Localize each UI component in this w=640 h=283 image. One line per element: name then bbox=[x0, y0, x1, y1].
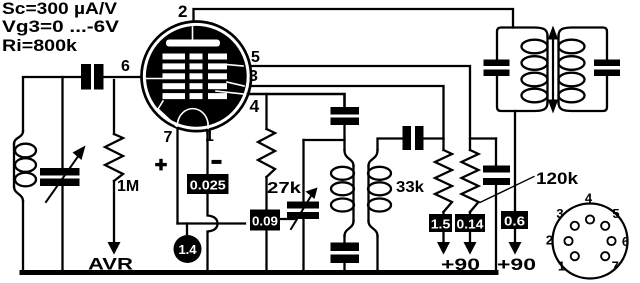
wire T2 secondary top bbox=[378, 139, 403, 151]
arrow +90 right bbox=[514, 229, 516, 242]
transformer T2 primary bbox=[345, 150, 354, 236]
capacitor C2 grid coupling bbox=[81, 64, 91, 90]
tube socket base diagram bbox=[553, 204, 628, 279]
wire T2 secondary bottom bbox=[376, 236, 378, 272]
svg-text:0.025: 0.025 bbox=[190, 178, 226, 193]
svg-text:4: 4 bbox=[250, 96, 260, 116]
resistor R1 1M bbox=[113, 80, 115, 134]
transformer T3 primary winding bbox=[546, 36, 548, 103]
wire grid cap to tube bbox=[104, 76, 142, 78]
svg-text:120k: 120k bbox=[536, 170, 579, 188]
transformer T2 secondary bbox=[369, 150, 378, 236]
arrow variable cap C1 bbox=[46, 155, 79, 202]
wire left antenna vertical bbox=[22, 78, 24, 272]
capacitor C8 33k coupling bbox=[403, 126, 412, 150]
svg-text:1: 1 bbox=[558, 259, 565, 274]
wire pin 4 to 27k bbox=[265, 94, 267, 129]
svg-text:+90: +90 bbox=[441, 256, 480, 274]
inductor L1 antenna coil bbox=[14, 131, 23, 201]
svg-text:0.09: 0.09 bbox=[252, 215, 278, 229]
wire 0.09 to trimmer bbox=[280, 218, 296, 220]
capacitor C11 T3 secondary bbox=[594, 60, 620, 67]
battery 1.4 circle bbox=[174, 235, 202, 263]
svg-text:1.5: 1.5 bbox=[431, 217, 451, 232]
capacitor C10 T3 primary bbox=[484, 60, 510, 67]
tube grid dashes bbox=[163, 54, 228, 100]
svg-text:4: 4 bbox=[585, 191, 593, 206]
wire pin 2 to output transformer bbox=[194, 9, 514, 28]
svg-text:0.6: 0.6 bbox=[504, 214, 525, 229]
tube V1 envelope bbox=[142, 22, 252, 132]
tube anode top bar bbox=[166, 40, 220, 47]
tube internal white leads bbox=[147, 27, 245, 130]
svg-text:27k: 27k bbox=[267, 180, 301, 197]
transformer T3 secondary winding bbox=[557, 36, 559, 103]
svg-text:2: 2 bbox=[178, 2, 187, 21]
svg-text:3: 3 bbox=[249, 68, 258, 85]
wire top grid horizontal y=77 bbox=[23, 76, 81, 78]
capacitor box 0.6 bbox=[501, 211, 528, 229]
capacitor C9 screen bypass bbox=[495, 139, 497, 166]
resistor R4 bbox=[462, 150, 479, 212]
wire T2 primary bottom bbox=[343, 236, 345, 243]
capacitor C7 oscillator bottom bbox=[331, 243, 360, 252]
svg-text:5: 5 bbox=[251, 49, 260, 66]
capacitor box 0.09 bbox=[250, 210, 280, 231]
ground rail bottom bbox=[22, 270, 496, 275]
svg-text:6: 6 bbox=[121, 58, 130, 75]
svg-text:6: 6 bbox=[622, 234, 629, 249]
svg-text:5: 5 bbox=[612, 206, 619, 221]
wire pin 1 with hop bbox=[208, 130, 218, 272]
capacitor box 0.14 bbox=[455, 214, 485, 232]
pointer line 120k bbox=[480, 177, 534, 203]
tuning double arrow T3 bbox=[552, 36, 554, 103]
wire screen node to bypass cap bbox=[470, 137, 496, 139]
svg-text:7: 7 bbox=[612, 259, 619, 274]
capacitor C5 padder trimmer bbox=[287, 202, 319, 209]
svg-text:7: 7 bbox=[164, 129, 173, 146]
svg-text:+90: +90 bbox=[497, 256, 536, 274]
socket pin 3 bbox=[571, 222, 579, 230]
svg-text:0.14: 0.14 bbox=[457, 218, 484, 232]
wire pin 4 oscillator line bbox=[248, 94, 345, 107]
arrow +90 supply left bbox=[442, 232, 444, 242]
wire pin 5 screen line bbox=[251, 66, 470, 150]
wire C8 to pin3 node bbox=[424, 137, 444, 139]
wire stub to battery 1.4 bbox=[186, 224, 188, 237]
wire trimmer branch vertical bbox=[302, 140, 304, 201]
svg-text:3: 3 bbox=[556, 206, 563, 221]
socket numbers bbox=[546, 191, 629, 274]
socket pin 1 bbox=[571, 252, 579, 260]
svg-text:Sc=300 µA/V: Sc=300 µA/V bbox=[2, 0, 117, 18]
arrow trimmer C5 bbox=[291, 196, 311, 229]
text minus bbox=[212, 160, 222, 164]
transformer T3 output left bracket bbox=[497, 28, 548, 112]
transformer T3 output right bracket bbox=[559, 28, 608, 112]
text plus cathode bbox=[155, 163, 167, 166]
wire trimmer to coil top bbox=[304, 139, 345, 141]
wire pin 7 cathode bbox=[176, 128, 178, 224]
capacitor box 0.025 bbox=[187, 174, 229, 194]
arrow +90 middle bbox=[469, 232, 471, 242]
tube V1 inner electrode disc bbox=[146, 26, 247, 127]
arrow AVR line bbox=[108, 242, 121, 255]
resistor R3 bbox=[435, 150, 452, 212]
capacitor box 1.5 bbox=[429, 214, 452, 232]
socket pin 4 bbox=[586, 215, 594, 223]
svg-text:Ri=800k: Ri=800k bbox=[2, 37, 78, 55]
svg-text:33k: 33k bbox=[396, 179, 424, 196]
socket pin 5 bbox=[601, 222, 609, 230]
socket pin 6 bbox=[607, 237, 615, 245]
svg-text:Vg3=0 ...-6V: Vg3=0 ...-6V bbox=[2, 18, 119, 36]
svg-text:1M: 1M bbox=[117, 178, 139, 195]
wire pin 3 line bbox=[252, 86, 444, 150]
svg-text:1.4: 1.4 bbox=[178, 242, 197, 257]
socket pin 7 bbox=[601, 252, 609, 260]
capacitor C6 oscillator top bbox=[331, 107, 360, 115]
svg-text:2: 2 bbox=[546, 233, 553, 248]
wire cathode horizontal bbox=[178, 222, 246, 224]
capacitor C1 variable tuning bbox=[61, 77, 63, 168]
wire C6 to coil bbox=[343, 125, 345, 150]
resistor R2 27k bbox=[258, 129, 275, 177]
wire T3 to 0.6 bbox=[514, 111, 516, 211]
socket pin 2 bbox=[564, 237, 572, 245]
